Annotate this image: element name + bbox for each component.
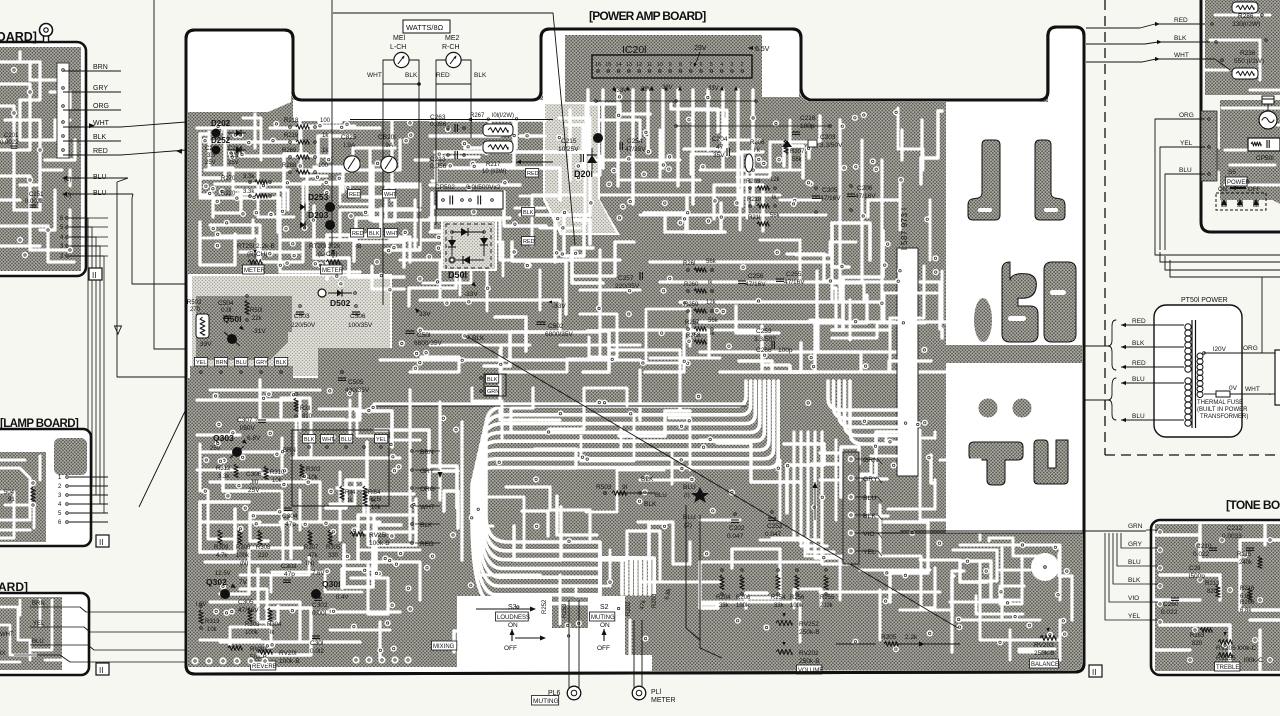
RT pots symbols xyxy=(248,260,262,265)
mounting screw icon xyxy=(40,24,53,37)
svg-text:Q50l: Q50l xyxy=(223,314,241,324)
transformer primary coils xyxy=(1185,324,1191,330)
bracket left group1 xyxy=(1108,320,1116,370)
svg-text:0.0022: 0.0022 xyxy=(25,199,44,205)
PL6 MUTING box xyxy=(532,696,559,706)
bottom-left board wires to main board xyxy=(60,607,186,612)
svg-text:R263: R263 xyxy=(1190,633,1205,639)
copper blob: comb bar left right-top xyxy=(968,140,1000,220)
svg-text:0.056: 0.056 xyxy=(430,121,447,128)
svg-text:RED: RED xyxy=(1132,360,1146,367)
fuse symbol above xyxy=(1262,99,1274,104)
svg-text:100k: 100k xyxy=(736,603,750,609)
svg-text:BLK: BLK xyxy=(1128,577,1141,584)
svg-text:3.3k: 3.3k xyxy=(243,174,255,180)
svg-text:YEL: YEL xyxy=(33,621,45,627)
connector box outline around strip xyxy=(292,430,389,506)
svg-text:BLK: BLK xyxy=(304,437,315,443)
copper blob: comb bar right right-top xyxy=(1035,140,1065,220)
svg-text:TREBLE: TREBLE xyxy=(1216,665,1239,671)
svg-text:6.5V: 6.5V xyxy=(755,46,770,53)
svg-text:C255: C255 xyxy=(786,271,802,278)
svg-text:CP502: CP502 xyxy=(435,184,455,191)
svg-text:BLK: BLK xyxy=(523,210,534,216)
wires below S5 going down xyxy=(1154,250,1156,260)
svg-text:12k: 12k xyxy=(770,177,781,183)
svg-text:(2): (2) xyxy=(684,522,692,529)
svg-text:C307 ?: C307 ? xyxy=(237,417,258,424)
svg-text:C204: C204 xyxy=(712,136,728,143)
connector strip BLK WHT BLU YEL xyxy=(303,435,316,444)
svg-text:MUTING: MUTING xyxy=(533,698,559,705)
lamp board copper pad blob xyxy=(54,438,87,475)
copper blob: T shape xyxy=(969,442,1023,485)
white channels central mass xyxy=(380,220,620,260)
svg-text:10/25V: 10/25V xyxy=(558,146,579,153)
svg-text:C306: C306 xyxy=(246,471,262,478)
svg-text:0.047: 0.047 xyxy=(727,533,744,540)
svg-text:0.047: 0.047 xyxy=(765,531,782,538)
svg-text:BRN: BRN xyxy=(32,601,45,607)
wire horizontal y13 xyxy=(333,13,575,245)
WATTS/8ohm box xyxy=(403,20,450,33)
board: bottom-left board outline xyxy=(0,593,89,675)
meter ME2 symbol xyxy=(446,52,461,67)
white cutout: right strip lower xyxy=(946,363,1082,533)
svg-text:METER: METER xyxy=(244,268,266,274)
svg-text:Rl64: Rl64 xyxy=(368,490,381,496)
svg-text:R267: R267 xyxy=(470,113,485,119)
left board copper traces xyxy=(0,47,81,271)
svg-text:C212: C212 xyxy=(1227,525,1243,532)
extra trace channels bottom xyxy=(210,389,320,392)
svg-text:13: 13 xyxy=(626,62,632,68)
svg-text:WHT: WHT xyxy=(1174,52,1189,59)
white slot: vertical routing slot xyxy=(897,248,918,476)
wire row under IC201 xyxy=(596,100,756,102)
copper strip ORG YEL BLU connector xyxy=(1201,111,1217,181)
svg-text:56k: 56k xyxy=(708,318,719,324)
svg-text:BLK: BLK xyxy=(1132,340,1145,347)
svg-text:BLK: BLK xyxy=(1174,35,1187,42)
long diagonal wire to BLU(1) xyxy=(468,337,958,628)
svg-text:R215: R215 xyxy=(1237,552,1252,558)
svg-text:GRY: GRY xyxy=(93,85,108,92)
svg-text:IX: IX xyxy=(0,651,6,657)
svg-text:C304: C304 xyxy=(282,513,298,520)
vertical trace bundle center-right xyxy=(794,432,820,540)
svg-text:R308: R308 xyxy=(256,545,271,551)
svg-text:WHT: WHT xyxy=(367,72,382,79)
svg-text:0.0l: 0.0l xyxy=(221,307,232,314)
svg-text:56k: 56k xyxy=(706,259,717,265)
wires from power switch down to transformer zone xyxy=(1155,250,1280,255)
svg-text:R236: R236 xyxy=(1240,50,1256,57)
svg-text:-31V: -31V xyxy=(252,328,266,335)
svg-text:100/35V: 100/35V xyxy=(348,322,373,329)
svg-text:(N): (N) xyxy=(306,561,314,567)
resistor box R267 xyxy=(483,124,513,136)
pillar white channel xyxy=(560,596,588,624)
svg-text:GRN: GRN xyxy=(1128,523,1143,530)
S5 dashed contact box xyxy=(1216,193,1266,210)
svg-text:OFF: OFF xyxy=(504,645,517,652)
svg-text:YEL: YEL xyxy=(376,437,386,443)
svg-text:56k: 56k xyxy=(792,157,803,163)
svg-text:R502: R502 xyxy=(187,300,202,306)
svg-text:ON: ON xyxy=(508,622,518,629)
svg-text:R26l: R26l xyxy=(683,261,695,267)
copper patch C503 C506 zone xyxy=(288,332,390,376)
svg-text:47/16V: 47/16V xyxy=(784,279,805,286)
tone wire staircase from main board xyxy=(900,530,1146,532)
arrow on RED wire xyxy=(121,150,186,155)
white channels bottom right mass xyxy=(960,545,1060,600)
svg-text:RED: RED xyxy=(352,231,364,237)
left board connector pad strip xyxy=(56,0,58,1)
svg-text:OFF: OFF xyxy=(597,645,610,652)
svg-text:OARD]: OARD] xyxy=(0,30,37,44)
svg-text:R207: R207 xyxy=(790,149,805,155)
svg-text:6.8V: 6.8V xyxy=(247,435,261,442)
main board outline restroke xyxy=(186,27,1084,674)
svg-text:C502: C502 xyxy=(548,323,564,330)
svg-text:250k-B: 250k-B xyxy=(799,658,820,665)
wire BLU2 down and into board xyxy=(132,194,188,284)
svg-text:l.9A: l.9A xyxy=(344,142,356,149)
svg-text:R253: R253 xyxy=(562,603,568,618)
svg-text:R216: R216 xyxy=(1240,586,1255,592)
REVERB box xyxy=(251,661,276,670)
PL6 lamp symbol xyxy=(567,686,581,700)
svg-text:Q303: Q303 xyxy=(213,433,234,443)
svg-text:C30l: C30l xyxy=(310,640,324,647)
light copper speckle left schematic zone xyxy=(192,276,390,376)
svg-text:R312: R312 xyxy=(216,466,231,472)
svg-text:R303: R303 xyxy=(245,622,260,628)
svg-text:BLU: BLU xyxy=(341,437,352,443)
svg-text:BLK: BLK xyxy=(487,377,498,383)
copper pillar between switches xyxy=(552,596,588,628)
component pads scattered xyxy=(270,138,276,144)
D501 bridge rectifier xyxy=(446,224,491,268)
svg-text:[POWER AMP BOARD]: [POWER AMP BOARD] xyxy=(589,9,706,23)
svg-text:C303: C303 xyxy=(281,563,297,570)
svg-text:100k-B: 100k-B xyxy=(279,658,300,665)
svg-text:220: 220 xyxy=(258,553,269,559)
svg-text:l 587 973 l: l 587 973 l xyxy=(900,208,909,250)
VOLUME box xyxy=(797,665,822,674)
board: right top board edge xyxy=(1201,0,1280,232)
white cutout: left schematic zone xyxy=(188,274,392,378)
svg-text:RED: RED xyxy=(1132,318,1146,325)
svg-text:10k: 10k xyxy=(371,505,382,511)
svg-text:R310: R310 xyxy=(270,470,285,476)
svg-text:RED: RED xyxy=(420,541,434,548)
svg-text:YEL: YEL xyxy=(1180,140,1193,147)
IC201 outline box xyxy=(592,55,752,78)
svg-text:l500p: l500p xyxy=(1189,573,1205,580)
lamp board traces xyxy=(0,452,46,542)
svg-text:BLU: BLU xyxy=(1132,376,1145,383)
svg-text:R217: R217 xyxy=(486,162,501,168)
svg-text:C214: C214 xyxy=(205,146,220,152)
svg-text:WATTS/8Ω: WATTS/8Ω xyxy=(406,23,444,32)
svg-text:820: 820 xyxy=(302,414,313,420)
svg-text:WHT: WHT xyxy=(0,632,14,638)
svg-text:TRANSFORMER): TRANSFORMER) xyxy=(1200,414,1248,420)
svg-text:220/35V: 220/35V xyxy=(615,283,640,290)
svg-text:47/16V: 47/16V xyxy=(855,193,876,200)
svg-text:C216: C216 xyxy=(800,115,816,122)
svg-text:L-CH: L-CH xyxy=(390,44,406,51)
svg-text:9l: 9l xyxy=(622,484,628,491)
svg-text:WHT: WHT xyxy=(386,231,399,237)
svg-text:l.9A: l.9A xyxy=(382,142,394,149)
svg-text:R206: R206 xyxy=(736,595,751,601)
svg-text:ORG: ORG xyxy=(420,486,435,493)
svg-text:33V: 33V xyxy=(708,86,719,92)
svg-text:GRY: GRY xyxy=(420,468,435,475)
svg-text:BLU: BLU xyxy=(1179,167,1192,174)
svg-text:RV202: RV202 xyxy=(799,650,819,657)
svg-text:R21l: R21l xyxy=(748,215,760,221)
svg-text:BLU: BLU xyxy=(863,495,876,502)
svg-text:0.0l/500Vx2: 0.0l/500Vx2 xyxy=(466,184,501,191)
svg-text:l0l(l/2W): l0l(l/2W) xyxy=(492,113,514,119)
RED WHT labels mid xyxy=(348,190,361,199)
svg-text:R206: R206 xyxy=(750,140,765,146)
svg-text:504: 504 xyxy=(4,490,15,496)
svg-text:C264: C264 xyxy=(228,146,243,152)
PL6 wires down xyxy=(568,600,570,688)
copper area: full board interior xyxy=(188,29,1082,672)
svg-text:25V: 25V xyxy=(205,160,216,166)
pad row bottom-left edge xyxy=(191,657,198,664)
svg-text:PT50l POWER: PT50l POWER xyxy=(1181,297,1228,304)
copper band crossing right strip xyxy=(946,345,1076,363)
wire vertical x154 xyxy=(154,0,402,349)
transformer core lines xyxy=(1191,320,1193,428)
svg-text:100: 100 xyxy=(320,118,331,124)
svg-text:C202: C202 xyxy=(729,525,745,532)
tone board pads xyxy=(1157,529,1163,535)
svg-text:330(l/2W): 330(l/2W) xyxy=(1232,21,1260,28)
svg-text:BRN: BRN xyxy=(93,64,108,71)
svg-text:GRY: GRY xyxy=(1128,541,1143,548)
svg-text:C257: C257 xyxy=(618,275,634,282)
separator wire y406 xyxy=(374,405,746,407)
svg-text:(L-CH): (L-CH) xyxy=(318,251,338,258)
svg-text:RED: RED xyxy=(436,72,450,79)
procedural trace channels xyxy=(319,118,341,122)
pad row bottom-center edge xyxy=(352,656,359,663)
svg-text:RED: RED xyxy=(1174,17,1188,24)
svg-text:6800/35V: 6800/35V xyxy=(545,331,573,338)
svg-text:(BUILT IN POWER: (BUILT IN POWER xyxy=(1197,407,1248,413)
copper patch Q501 zone xyxy=(196,296,292,360)
white cutout: switch zone S3 S2 xyxy=(457,596,632,672)
svg-text:RED: RED xyxy=(93,148,108,155)
svg-text:THERMAL FUSE: THERMAL FUSE xyxy=(1197,400,1243,406)
copper blob: two circles right xyxy=(979,399,998,418)
svg-text:C504: C504 xyxy=(218,300,234,307)
svg-text:GRN: GRN xyxy=(863,457,878,464)
open arrow on BLU1 wire xyxy=(115,326,122,334)
wire from VIO to right xyxy=(876,532,1084,534)
white cutout: band under top dip xyxy=(293,100,543,121)
svg-text:CB20l: CB20l xyxy=(378,134,396,141)
svg-text:Rll4: Rll4 xyxy=(345,490,356,496)
svg-text:7V: 7V xyxy=(239,579,248,586)
svg-text:4.7k: 4.7k xyxy=(216,553,228,559)
svg-text:0.056: 0.056 xyxy=(430,163,447,170)
wire diagonal from lamp bundle to main board xyxy=(139,382,199,507)
svg-text:BLK: BLK xyxy=(863,513,876,520)
svg-text:WHT: WHT xyxy=(93,120,110,127)
dashed separation line horizontal xyxy=(1105,454,1280,456)
svg-text:BLU: BLU xyxy=(1128,559,1141,566)
svg-text:16: 16 xyxy=(595,62,601,68)
arrow on WHT wire xyxy=(121,122,186,127)
svg-text:29V: 29V xyxy=(694,45,707,52)
marker II top-left board xyxy=(89,268,102,280)
svg-text:33V: 33V xyxy=(662,85,673,91)
svg-text:C256: C256 xyxy=(748,273,764,280)
svg-text:BLU: BLU xyxy=(655,493,667,499)
svg-text:l00k-C: l00k-C xyxy=(1244,657,1263,664)
board: POWER AMP BOARD outline xyxy=(186,27,1084,674)
meter wiring xyxy=(383,60,419,84)
svg-text:25V: 25V xyxy=(228,160,239,166)
svg-text:1k: 1k xyxy=(322,133,329,139)
svg-text:S2: S2 xyxy=(600,604,609,611)
svg-text:47/16V: 47/16V xyxy=(745,281,766,288)
wire vertical x332 from top xyxy=(331,0,333,247)
svg-text:BLU: BLU xyxy=(93,190,107,197)
svg-text:0.0022: 0.0022 xyxy=(0,140,19,146)
white circle pad bottom right xyxy=(1031,553,1059,581)
copper blob: 5-shape right-mid xyxy=(1044,262,1076,342)
marker II lamp board xyxy=(96,535,109,547)
resistor box R217 xyxy=(483,141,513,153)
svg-text:BLK: BLK xyxy=(369,231,380,237)
svg-text:II: II xyxy=(1092,668,1096,677)
svg-text:R307: R307 xyxy=(304,545,319,551)
svg-text:R313: R313 xyxy=(205,619,220,625)
svg-text:BLU: BLU xyxy=(236,360,247,366)
svg-text:3: 3 xyxy=(730,62,733,68)
svg-text:0.00l: 0.00l xyxy=(312,610,327,617)
svg-text:R203: R203 xyxy=(652,593,658,608)
svg-text:10k: 10k xyxy=(272,478,283,484)
dashed separation line vertical xyxy=(1104,0,1106,455)
svg-text:ORG: ORG xyxy=(1243,345,1258,352)
svg-text:C251: C251 xyxy=(29,192,44,198)
svg-text:6: 6 xyxy=(699,62,702,68)
svg-text:S5: S5 xyxy=(1228,169,1236,176)
svg-text:[TONE BOA: [TONE BOA xyxy=(1226,498,1280,512)
svg-text:ME2: ME2 xyxy=(445,35,460,42)
svg-text:100: 100 xyxy=(318,163,329,169)
svg-text:C253: C253 xyxy=(756,328,772,335)
svg-text:METER: METER xyxy=(651,697,676,704)
svg-text:91: 91 xyxy=(8,497,15,503)
svg-text:6.8k: 6.8k xyxy=(1240,608,1252,614)
svg-text:l/50V: l/50V xyxy=(240,425,255,432)
svg-text:R25l: R25l xyxy=(369,497,381,503)
svg-text:RT25l 2.2k-B: RT25l 2.2k-B xyxy=(237,243,275,250)
svg-text:C201: C201 xyxy=(4,133,19,139)
svg-text:100p: 100p xyxy=(778,347,793,354)
BLK label xyxy=(522,208,535,217)
svg-text:BLK: BLK xyxy=(93,134,107,141)
svg-text:25V: 25V xyxy=(210,446,221,452)
pin fan wires down to lamp board xyxy=(69,218,88,477)
svg-text:15: 15 xyxy=(605,62,611,68)
svg-text:BLU: BLU xyxy=(93,174,107,181)
svg-text:RV25l: RV25l xyxy=(369,532,387,539)
tone resistor symbols xyxy=(1209,547,1217,549)
copper bump right of IC201 xyxy=(746,33,762,96)
svg-text:2.2k: 2.2k xyxy=(905,634,918,641)
svg-text:D50l: D50l xyxy=(448,270,467,280)
white patch CP502 row xyxy=(520,195,560,198)
svg-text:35V: 35V xyxy=(713,152,725,159)
TREBLE box xyxy=(1215,662,1240,671)
svg-text:3.3: 3.3 xyxy=(230,153,239,159)
svg-text:l k: l k xyxy=(754,148,761,154)
svg-text:C206: C206 xyxy=(857,185,873,192)
svg-text:100k: 100k xyxy=(790,603,804,609)
svg-text:·: · xyxy=(440,286,442,292)
separator channel y405 xyxy=(374,402,744,405)
white channels bottom-left cluster xyxy=(197,400,300,430)
svg-text:(l): (l) xyxy=(684,492,690,499)
svg-text:R219: R219 xyxy=(284,133,299,139)
PL1 wires down xyxy=(633,620,635,688)
svg-text:II: II xyxy=(92,271,96,280)
svg-text:D20l: D20l xyxy=(574,169,593,179)
svg-text:33V: 33V xyxy=(200,341,212,348)
svg-text:C205: C205 xyxy=(822,187,838,194)
svg-text:R205: R205 xyxy=(881,634,897,641)
svg-text:MIXING: MIXING xyxy=(433,644,455,650)
white cutout: IC201 right gap xyxy=(762,31,799,97)
svg-text:R210: R210 xyxy=(747,197,762,203)
svg-text:25V: 25V xyxy=(248,487,260,494)
white trace channels top-mid xyxy=(430,118,545,121)
svg-text:R268: R268 xyxy=(282,163,297,169)
meter ME1 symbol xyxy=(394,52,409,67)
bracket left group2 xyxy=(1108,378,1116,420)
svg-text:BLK: BLK xyxy=(474,72,487,79)
svg-text:BRN: BRN xyxy=(216,360,228,366)
svg-text:430/35V: 430/35V xyxy=(345,387,370,394)
meter wires down into board xyxy=(382,84,384,305)
svg-text:R304: R304 xyxy=(267,622,282,628)
svg-text:C2ll: C2ll xyxy=(1189,565,1201,572)
svg-text:GRY: GRY xyxy=(863,476,878,483)
board: left connector board (partial) outline xyxy=(0,42,86,276)
svg-text:R254: R254 xyxy=(771,595,786,601)
wire R267 long line xyxy=(350,119,553,121)
RED label boxed right xyxy=(526,169,539,178)
svg-text:R256: R256 xyxy=(790,595,805,601)
svg-text:7.6V: 7.6V xyxy=(312,571,324,577)
svg-text:BLK: BLK xyxy=(276,360,287,366)
svg-text:BLU: BLU xyxy=(683,484,696,491)
